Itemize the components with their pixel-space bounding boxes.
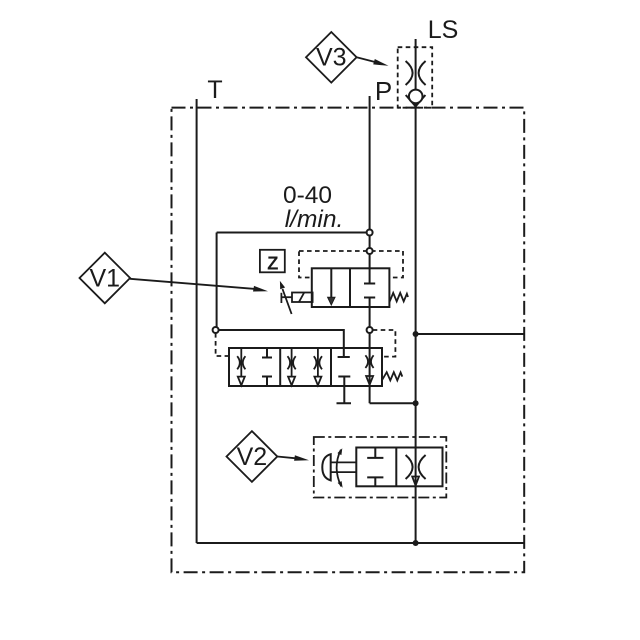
svg-text:LS: LS xyxy=(428,16,459,44)
svg-text:P: P xyxy=(375,76,392,106)
node circle P at pilot box xyxy=(367,248,373,254)
pilot node circle right (P line) xyxy=(367,327,373,333)
LS line lower part (through V2) xyxy=(415,437,417,543)
V2 left cell piston T top xyxy=(367,448,383,458)
pilot dashed box over valve U1 xyxy=(299,251,403,278)
tank line T (vertical) xyxy=(196,99,198,543)
V2 right cell orifice arcs xyxy=(406,455,426,479)
V2 divider xyxy=(395,448,397,487)
orifice check box V3 (dashed) xyxy=(398,47,433,107)
compensator dividers xyxy=(279,348,281,386)
compensator cell1 blocked T pair xyxy=(262,348,272,386)
check valve seat V xyxy=(406,95,426,106)
diamond V2 xyxy=(227,431,278,482)
compensator pilot dash left xyxy=(216,333,229,356)
tank/drain wire bottom horizontal xyxy=(197,542,525,544)
P line through compensator xyxy=(369,348,371,403)
valve U1 body (2-pos throttle valve) xyxy=(312,268,390,307)
arrow from V1 xyxy=(130,279,256,289)
svg-text:V1: V1 xyxy=(90,264,121,292)
V2 adjust arc with arrows xyxy=(337,450,342,487)
svg-text:Z: Z xyxy=(267,252,278,273)
V2 shaft xyxy=(331,462,357,472)
junction dot LS/tank wire xyxy=(413,540,419,546)
arrow from V3 xyxy=(357,57,376,62)
V2 valve body xyxy=(356,448,442,487)
pilot node circle left xyxy=(213,327,219,333)
svg-text:0-40: 0-40 xyxy=(283,182,332,209)
diamond V1 xyxy=(80,253,131,304)
wire from metering line to valve (horizontal 0-40) xyxy=(217,232,370,234)
U1 spring xyxy=(389,293,408,302)
arrow from V2 xyxy=(277,457,296,459)
compensator pilot dash right xyxy=(373,330,396,357)
compensator cell3 blocked T down (extends below) xyxy=(337,377,352,404)
LS line (vertical main) xyxy=(415,39,417,437)
V2 knob (half ellipse) xyxy=(322,454,330,480)
Z pilot box xyxy=(260,250,285,272)
svg-text:l/min.: l/min. xyxy=(285,206,344,233)
svg-text:V3: V3 xyxy=(316,43,347,71)
U1 proportional solenoid box xyxy=(292,293,313,303)
U1 right cell blocked port T top xyxy=(364,283,375,285)
svg-text:V2: V2 xyxy=(237,443,268,471)
compensator cell1 throttle + arrow xyxy=(240,348,242,377)
U1 solenoid armature bar xyxy=(280,293,282,303)
compensator cell2 throttle + arrow (left) xyxy=(291,348,293,377)
junction dot LS/right wire xyxy=(413,331,419,337)
V2 flow control dash-dot box xyxy=(314,437,447,498)
wire P to LS bottom of compensator xyxy=(370,402,416,404)
U1 proportional arrow xyxy=(283,289,292,314)
wire down to compensator pilot xyxy=(216,233,218,331)
compensator cell3 inlet T xyxy=(338,348,350,357)
U1 left cell flow arrow xyxy=(330,268,332,298)
compensator spring xyxy=(382,372,402,380)
U1 right cell blocked port T bottom xyxy=(364,297,375,299)
wire from pilot node to compensator inlet xyxy=(219,330,344,348)
enclosure border (valve block, phantom line) xyxy=(172,108,525,573)
check valve ball xyxy=(409,90,423,104)
V2 left cell piston T bottom xyxy=(367,477,383,486)
P line (vertical main) xyxy=(369,96,371,348)
valve U1 divider xyxy=(349,268,351,307)
LS external wire right (upper) xyxy=(416,333,525,335)
svg-text:T: T xyxy=(207,76,222,104)
compensator cell3 throttle + arrow (on P line) xyxy=(365,355,373,368)
junction dot P-LS bottom xyxy=(413,400,419,406)
node circle P at metering wire xyxy=(367,230,373,236)
V2 flow arrow down on LS line xyxy=(412,477,419,486)
diamond V3 xyxy=(306,32,357,83)
compensator valve body xyxy=(229,348,382,386)
orifice arcs in V3 box xyxy=(406,61,426,85)
compensator cell2 throttle + arrow (right) xyxy=(317,348,319,377)
